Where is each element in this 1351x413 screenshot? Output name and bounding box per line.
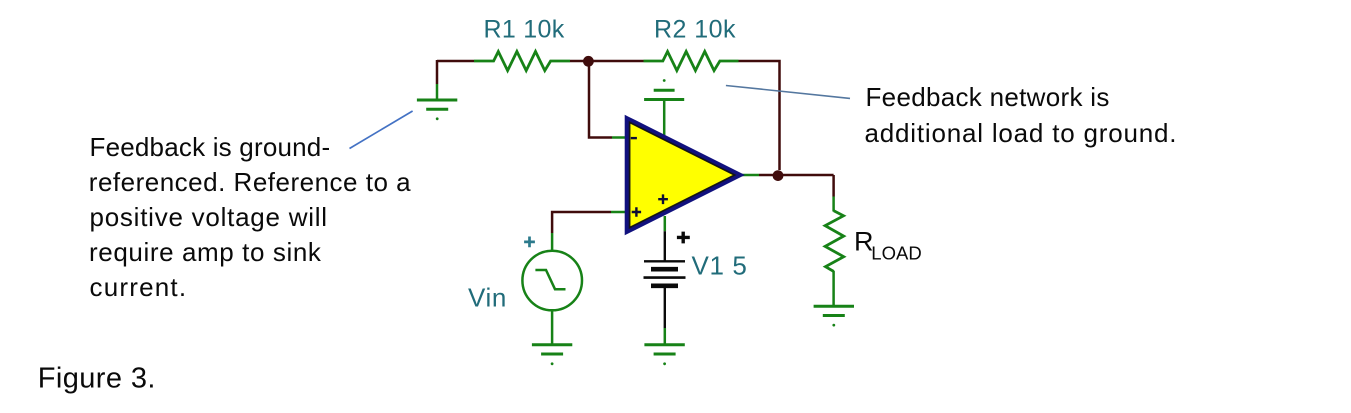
svg-text:current.: current. <box>90 272 188 302</box>
svg-text:R2 10k: R2 10k <box>654 15 736 43</box>
svg-text:require amp to sink: require amp to sink <box>89 237 322 267</box>
svg-text:Figure 3.: Figure 3. <box>38 363 156 395</box>
svg-text:Feedback is ground-: Feedback is ground- <box>90 132 331 162</box>
svg-text:additional load to ground.: additional load to ground. <box>865 118 1178 148</box>
svg-text:referenced. Reference to a: referenced. Reference to a <box>89 167 411 197</box>
svg-text:Vin: Vin <box>468 283 507 313</box>
svg-text:Feedback network is: Feedback network is <box>866 82 1110 112</box>
svg-text:R1 10k: R1 10k <box>484 15 565 43</box>
svg-text:V1 5: V1 5 <box>692 251 748 281</box>
svg-text:LOAD: LOAD <box>871 242 921 263</box>
svg-text:positive voltage will: positive voltage will <box>90 202 328 232</box>
